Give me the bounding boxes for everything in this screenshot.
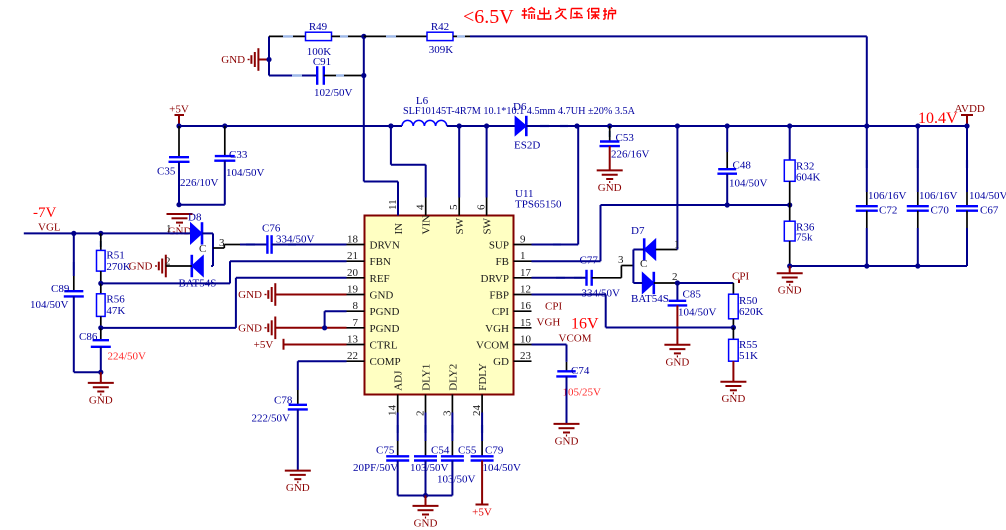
- svg-text:FBN: FBN: [370, 256, 391, 268]
- wire gnd to R49/C91 node: [258, 59, 269, 61]
- pin 1 FB stub: [514, 260, 532, 262]
- wire C91 right lead: [324, 75, 364, 77]
- pin 6 SW stub: [486, 198, 488, 216]
- capacitor C91: [317, 66, 324, 85]
- svg-text:106/16V: 106/16V: [868, 190, 907, 202]
- ground GND C53: [597, 170, 623, 182]
- svg-text:VIN: VIN: [421, 215, 433, 235]
- wire IN pin11 riser join: [397, 198, 399, 216]
- svg-text:VCOM: VCOM: [559, 333, 592, 345]
- svg-text:222/50V: 222/50V: [252, 413, 291, 425]
- resistor R51: [100, 233, 102, 250]
- svg-text:CPI: CPI: [545, 301, 562, 313]
- resistor R49: [306, 32, 332, 40]
- capacitor C78: [288, 405, 308, 410]
- svg-text:2: 2: [672, 271, 678, 283]
- wire VIN to rail: [390, 126, 392, 165]
- pin 19 GND stub: [347, 294, 365, 296]
- pin 15 VGH stub: [514, 327, 532, 329]
- pin 10 VCOM stub: [514, 344, 532, 346]
- svg-text:GD: GD: [493, 356, 509, 368]
- svg-text:R49: R49: [309, 21, 328, 33]
- svg-text:23: 23: [520, 350, 532, 362]
- svg-text:COMP: COMP: [370, 356, 401, 368]
- wire C78 to gnd: [297, 409, 299, 470]
- svg-text:VCOM: VCOM: [476, 340, 509, 352]
- svg-text:10.4V: 10.4V: [918, 110, 958, 127]
- wire C85 to gnd: [676, 305, 678, 344]
- svg-text:SW: SW: [482, 217, 494, 234]
- ground D8 pin2: [156, 255, 166, 278]
- wire R42 to AVDD rail (UVP sense): [453, 35, 470, 37]
- svg-text:REF: REF: [370, 273, 390, 285]
- svg-text:103/50V: 103/50V: [410, 462, 449, 474]
- wire to gnd: [100, 372, 102, 383]
- pin 5 SW stub: [458, 198, 460, 216]
- svg-text:C: C: [640, 258, 647, 270]
- capacitor C77: [532, 277, 587, 279]
- wire C77 to D7 pin3: [592, 277, 622, 279]
- wire REF to R56/C86 junction: [236, 277, 347, 279]
- svg-text:C35: C35: [157, 166, 176, 178]
- wire CTRL: [284, 344, 347, 346]
- svg-text:IN: IN: [393, 223, 405, 235]
- wire COMP to C78: [298, 360, 347, 362]
- svg-text:17: 17: [520, 267, 532, 279]
- svg-text:C78: C78: [274, 395, 293, 407]
- wire pin19 gnd: [275, 294, 346, 296]
- title Chinese text 输出欠压保护: [522, 8, 616, 20]
- diode D6 ES2D: [515, 117, 526, 136]
- svg-text:DLY2: DLY2: [447, 364, 459, 391]
- svg-text:PGND: PGND: [370, 323, 400, 335]
- svg-text:1: 1: [674, 239, 680, 251]
- svg-text:C48: C48: [733, 160, 752, 172]
- pin 17 DRVP stub: [514, 277, 532, 279]
- svg-text:102/50V: 102/50V: [314, 87, 353, 99]
- svg-text:GND: GND: [414, 517, 438, 529]
- svg-text:6: 6: [476, 204, 488, 210]
- svg-text:GND: GND: [221, 54, 245, 66]
- svg-text:VGL: VGL: [38, 222, 61, 234]
- node R50/R55/FBP junction: [731, 325, 736, 330]
- ground GND R36: [777, 273, 803, 285]
- resistor R32: [789, 126, 791, 160]
- ground GND C35/C33: [167, 214, 193, 226]
- svg-text:R42: R42: [431, 21, 449, 33]
- svg-text:C75: C75: [376, 445, 395, 457]
- pin 7 PGND stub: [347, 327, 365, 329]
- svg-text:9: 9: [520, 234, 526, 246]
- svg-text:+5V: +5V: [254, 339, 274, 351]
- svg-text:GND: GND: [555, 435, 579, 447]
- pin 2 DLY1 stub: [425, 395, 427, 413]
- pin 21 FBN stub: [347, 260, 365, 262]
- wire C53 to gnd: [609, 146, 611, 170]
- wire C91 left lead: [269, 75, 317, 77]
- wire to gnd: [425, 496, 427, 506]
- svg-text:GND: GND: [238, 289, 262, 301]
- capacitor C54: [425, 413, 427, 442]
- wire bottom caps common: [397, 461, 399, 496]
- svg-text:GND: GND: [286, 482, 310, 494]
- capacitor C89: [73, 233, 75, 276]
- svg-text:FB: FB: [496, 256, 509, 268]
- svg-text:D8: D8: [188, 212, 202, 224]
- wire VCOM to C74: [532, 344, 567, 346]
- wire C33 bottom to C35 bottom: [224, 161, 226, 205]
- capacitor C67: [966, 126, 968, 192]
- wire R55 to gnd: [732, 361, 734, 382]
- wire C48 bottom: [726, 174, 728, 205]
- svg-text:C67: C67: [980, 205, 999, 217]
- capacitor C70: [917, 126, 919, 192]
- svg-text:16: 16: [520, 300, 532, 312]
- svg-text:20: 20: [347, 267, 359, 279]
- svg-text:270K: 270K: [106, 261, 130, 273]
- capacitor C48: [726, 126, 728, 152]
- svg-text:604K: 604K: [796, 172, 821, 184]
- wire SW pin5 to rail: [458, 126, 460, 198]
- svg-text:3: 3: [618, 254, 624, 266]
- svg-text:7: 7: [353, 317, 359, 329]
- wire R42 left lead: [364, 35, 427, 37]
- svg-text:104/50V: 104/50V: [969, 190, 1006, 202]
- wire C35 bottom: [178, 162, 180, 205]
- wire caps bottom common: [790, 265, 967, 267]
- svg-text:VGH: VGH: [537, 317, 561, 329]
- capacitor C35: [178, 126, 180, 157]
- svg-text:D7: D7: [631, 225, 645, 237]
- wire D7 pin1 to rail: [656, 249, 678, 251]
- svg-text:224/50V: 224/50V: [108, 351, 147, 363]
- svg-text:R51: R51: [106, 250, 124, 262]
- svg-text:GND: GND: [721, 393, 745, 405]
- ground top-left (R49/C91): [249, 48, 259, 71]
- svg-text:C89: C89: [51, 283, 70, 295]
- svg-text:TPS65150: TPS65150: [515, 199, 562, 211]
- power AVDD: [966, 115, 968, 126]
- diode D7 lower: [642, 273, 654, 294]
- svg-text:GND: GND: [370, 290, 394, 302]
- svg-text:DLY1: DLY1: [421, 364, 433, 391]
- svg-text:CPI: CPI: [732, 271, 749, 283]
- wire R49 right lead: [332, 35, 364, 37]
- svg-text:C85: C85: [683, 289, 702, 301]
- node R49/R42/C91/IN junction: [361, 34, 366, 39]
- node AVDD gnd bottom line: [787, 263, 792, 268]
- wire pin2: [166, 265, 192, 267]
- svg-text:VGH: VGH: [485, 323, 509, 335]
- pin 13 CTRL stub: [347, 344, 365, 346]
- svg-text:1: 1: [166, 223, 172, 235]
- wire PGND pin8 jog: [324, 311, 326, 328]
- resistor R56: [100, 283, 102, 293]
- svg-text:1: 1: [520, 250, 526, 262]
- power +5V C79: [481, 461, 483, 505]
- pin 9 SUP stub: [514, 244, 532, 246]
- capacitor C85: [676, 283, 678, 301]
- svg-text:C91: C91: [313, 56, 331, 68]
- svg-text:C55: C55: [458, 445, 477, 457]
- svg-text:GND: GND: [238, 323, 262, 335]
- svg-text:21: 21: [347, 250, 358, 262]
- svg-text:GND: GND: [598, 182, 622, 194]
- pin 22 COMP stub: [347, 360, 365, 362]
- capacitor C79: [481, 413, 483, 442]
- inductor L6: [402, 120, 447, 126]
- wire D8 pin3 to C76: [213, 247, 224, 249]
- wire left vertical R49/C91: [268, 36, 270, 75]
- node R56/C86 REF junction: [98, 325, 103, 330]
- svg-text:R56: R56: [106, 294, 125, 306]
- svg-text:AVDD: AVDD: [955, 103, 985, 115]
- svg-text:12: 12: [520, 284, 531, 296]
- svg-text:C79: C79: [485, 445, 504, 457]
- wire diode to AVDD rail: [526, 125, 967, 127]
- svg-text:104/50V: 104/50V: [30, 299, 69, 311]
- pin 18 DRVN stub: [347, 244, 365, 246]
- svg-text:4: 4: [415, 204, 427, 210]
- wire C74 to gnd: [566, 376, 568, 424]
- capacitor C33: [224, 126, 226, 156]
- svg-text:18: 18: [347, 234, 359, 246]
- diode D8 lower: [192, 256, 204, 277]
- capacitor C76: [240, 244, 267, 246]
- capacitor C72: [866, 126, 868, 192]
- svg-text:CPI: CPI: [492, 306, 509, 318]
- svg-text:226/16V: 226/16V: [611, 149, 650, 161]
- wire C89 bottom: [73, 296, 75, 372]
- wire FBN to R51/R56 junction: [230, 260, 347, 262]
- svg-text:20PF/50V: 20PF/50V: [353, 462, 398, 474]
- pin 12 FBP stub: [514, 294, 532, 296]
- svg-text:C53: C53: [616, 132, 635, 144]
- svg-text:22: 22: [347, 350, 358, 362]
- svg-text:SW: SW: [454, 217, 466, 234]
- ground GND R55: [720, 382, 746, 394]
- svg-text:19: 19: [347, 284, 359, 296]
- wire SUP to rail: [532, 244, 579, 246]
- svg-text:5: 5: [448, 204, 460, 210]
- svg-text:103/50V: 103/50V: [437, 474, 476, 486]
- resistor R50: [732, 283, 734, 294]
- svg-text:47K: 47K: [106, 305, 125, 317]
- wire PGND pin7: [275, 327, 346, 329]
- pin 16 CPI stub: [514, 310, 532, 312]
- svg-text:-7V: -7V: [33, 205, 56, 221]
- svg-text:8: 8: [353, 300, 359, 312]
- ground GND C85: [664, 345, 690, 357]
- resistor R36: [789, 205, 791, 221]
- node R51/R56 FBN junction: [98, 281, 103, 286]
- wire SW pin6 to rail: [486, 126, 488, 198]
- ground GND C74: [554, 424, 580, 436]
- wire vertical from R49/R42 node down to IN (crosses +5V rail): [363, 36, 365, 181]
- wire ghost dashes: [74, 36, 967, 433]
- resistor R42: [427, 32, 453, 40]
- svg-text:620K: 620K: [739, 306, 764, 318]
- svg-text:309K: 309K: [429, 44, 454, 56]
- svg-text:FBP: FBP: [489, 290, 509, 302]
- svg-text:75k: 75k: [796, 232, 813, 244]
- svg-text:104/50V: 104/50V: [678, 307, 717, 319]
- svg-text:C74: C74: [571, 365, 590, 377]
- ground GND C86: [88, 383, 114, 395]
- svg-text:GND: GND: [129, 261, 153, 273]
- wire R49 left lead: [269, 35, 306, 37]
- svg-text:+5V: +5V: [472, 507, 492, 519]
- wire C76 to DRVN: [272, 244, 347, 246]
- svg-text:PGND: PGND: [370, 306, 400, 318]
- wire L6 to diode: [447, 125, 515, 127]
- svg-text:C33: C33: [229, 149, 248, 161]
- svg-text:105/25V: 105/25V: [563, 387, 602, 399]
- capacitor C75: [397, 413, 399, 442]
- svg-text:16V: 16V: [571, 316, 599, 333]
- svg-text:BAT54S: BAT54S: [631, 293, 669, 305]
- ground GND bottom caps: [413, 506, 439, 518]
- svg-text:104/50V: 104/50V: [226, 167, 265, 179]
- svg-text:GND: GND: [89, 394, 113, 406]
- pin 14 ADJ stub: [397, 395, 399, 413]
- resistor R55: [732, 328, 734, 340]
- svg-text:<6.5V: <6.5V: [463, 6, 514, 28]
- wire FBP to divider: [532, 294, 606, 296]
- svg-text:ES2D: ES2D: [514, 140, 540, 152]
- svg-text:+5V: +5V: [169, 104, 189, 116]
- svg-text:D6: D6: [513, 101, 527, 113]
- ground GND C78: [285, 471, 311, 483]
- capacitor C55: [451, 413, 453, 442]
- svg-text:FDLY: FDLY: [477, 363, 489, 391]
- wire D7 common node: [632, 250, 634, 284]
- svg-text:51K: 51K: [739, 350, 758, 362]
- pin 23 GD stub: [514, 360, 532, 362]
- svg-text:SUP: SUP: [489, 240, 509, 252]
- pin 4 VIN stub: [425, 198, 427, 216]
- svg-text:15: 15: [520, 317, 532, 329]
- svg-text:C: C: [199, 243, 206, 255]
- op-amp U1 IC U11 TPS65150 body: [365, 216, 514, 395]
- wire FB to divider: [532, 260, 601, 262]
- svg-text:GND: GND: [778, 285, 802, 297]
- wire VGL rail: [24, 232, 191, 234]
- wire C86 bottom: [100, 347, 102, 372]
- wire D7 pin2 node: [654, 282, 678, 284]
- pin 3 DLY2 stub: [451, 395, 453, 413]
- svg-text:3: 3: [219, 237, 225, 249]
- svg-text:C77: C77: [580, 255, 599, 267]
- svg-text:10: 10: [520, 334, 532, 346]
- svg-text:106/16V: 106/16V: [919, 190, 958, 202]
- svg-text:C70: C70: [931, 205, 950, 217]
- svg-text:DRVP: DRVP: [481, 273, 509, 285]
- svg-text:226/10V: 226/10V: [180, 177, 219, 189]
- svg-text:CTRL: CTRL: [370, 340, 398, 352]
- pin 20 REF stub: [347, 277, 365, 279]
- capacitor C74: [556, 371, 576, 376]
- wire D8 common node: [212, 233, 214, 266]
- capacitor C86: [100, 328, 102, 340]
- capacitor C53: [609, 126, 611, 142]
- svg-text:C72: C72: [879, 205, 897, 217]
- svg-text:104/50V: 104/50V: [729, 178, 768, 190]
- pin 24 FDLY stub: [481, 395, 483, 413]
- wire R36 to gnd: [789, 266, 791, 273]
- svg-text:104/50V: 104/50V: [483, 462, 522, 474]
- wire +5V rail to L6: [179, 125, 402, 127]
- svg-text:C54: C54: [431, 445, 450, 457]
- pin 11 IN stub: [397, 198, 399, 216]
- pin 8 PGND stub: [347, 310, 365, 312]
- svg-text:GND: GND: [665, 356, 689, 368]
- svg-text:C86: C86: [79, 331, 98, 343]
- svg-text:DRVN: DRVN: [370, 240, 400, 252]
- svg-text:13: 13: [347, 334, 359, 346]
- svg-text:ADJ: ADJ: [393, 370, 405, 391]
